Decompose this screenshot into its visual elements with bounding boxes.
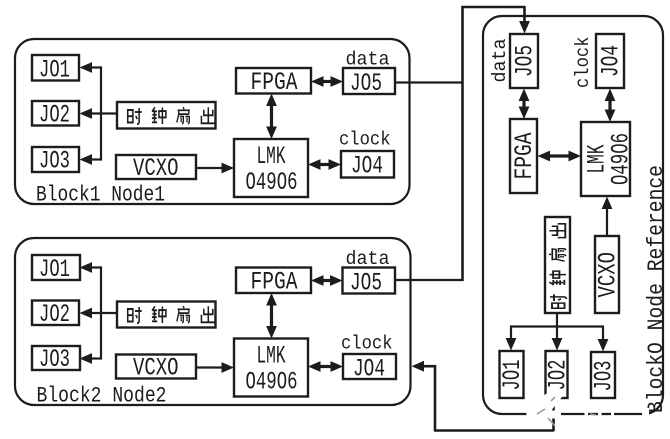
svg-text:FPGA: FPGA <box>251 268 298 297</box>
wire FPGA-LMK04906 double arrow (Block2) <box>266 293 277 339</box>
svg-text:JO3: JO3 <box>39 147 70 176</box>
wire FPGA-J05 double arrow (Block2) <box>311 275 343 286</box>
svg-text:JO4: JO4 <box>351 152 383 181</box>
svg-text:JO3: JO3 <box>590 361 619 392</box>
port J04 (Block0) <box>596 34 626 88</box>
label clock (Block0) <box>572 37 594 89</box>
oscillator VCXO (Block0) <box>594 236 623 313</box>
block Block1 Node1 boundary <box>15 39 410 204</box>
svg-text:JO5: JO5 <box>350 269 382 298</box>
svg-text:LMK: LMK <box>257 342 286 371</box>
wire J05 out to trunk (Block2) <box>395 279 464 281</box>
wire data drop into Block0 J05 <box>519 6 530 34</box>
wire fanout to J02 (Block2) <box>80 308 118 319</box>
clock fanout box 时钟扇出 (Block2) <box>117 302 216 328</box>
svg-text:JO4: JO4 <box>597 45 626 77</box>
wire J05-FPGA double arrow (Block0) <box>519 89 530 120</box>
svg-text:Block2 Node2: Block2 Node2 <box>37 384 167 409</box>
connector J01 (Block0) <box>498 351 527 398</box>
clock chip LMK04906 (Block2) <box>234 339 308 397</box>
wire VCXO to LMK04906 (Block2) <box>196 362 234 373</box>
svg-text:JO1: JO1 <box>39 56 70 85</box>
connector J01 (Block2) <box>32 255 80 284</box>
svg-text:JO1: JO1 <box>498 360 527 391</box>
label data (Block1) <box>346 49 390 71</box>
svg-text:JO5: JO5 <box>350 69 382 98</box>
svg-text:JO2: JO2 <box>39 101 70 130</box>
svg-text:clock: clock <box>341 333 393 355</box>
wire VCXO to LMK04906 (Block0) <box>602 197 613 237</box>
port J05 (Block2) <box>343 268 396 298</box>
svg-text:Block1 Node1: Block1 Node1 <box>36 183 165 208</box>
port J04 (Block2) <box>343 354 396 384</box>
svg-text:LMK: LMK <box>257 142 286 171</box>
FPGA (Block0) <box>510 119 539 193</box>
wire FPGA-LMK04906 double arrow (Block0) <box>538 151 582 162</box>
svg-text:VCXO: VCXO <box>133 354 179 383</box>
svg-text:JO5: JO5 <box>511 45 540 77</box>
label data (Block0) <box>489 39 511 83</box>
label Block0 Node Reference <box>644 165 669 413</box>
svg-text:clock: clock <box>572 37 594 89</box>
connector J02 (Block2) <box>32 300 79 329</box>
wire branch to J03 (Block1) <box>80 154 103 165</box>
wire J04-LMK04906 double arrow (Block0) <box>605 89 616 123</box>
connector J02 (Block0) <box>544 351 573 398</box>
port J04 (Block1) <box>341 151 394 181</box>
wire LMK04906-J04 double arrow (Block1) <box>308 159 341 170</box>
svg-text:JO1: JO1 <box>39 255 70 284</box>
wire FPGA-LMK04906 double arrow (Block1) <box>266 94 277 140</box>
svg-text:FPGA: FPGA <box>510 133 539 180</box>
connector J03 (Block1) <box>32 147 79 176</box>
connector J01 (Block1) <box>32 55 79 85</box>
connector J02 (Block1) <box>32 101 79 130</box>
label Block1 Node1 <box>36 183 165 208</box>
label clock (Block2) <box>341 333 393 355</box>
label clock (Block1) <box>339 129 391 151</box>
wire fanout branch vertical (Block2) <box>100 267 102 360</box>
svg-text:FPGA: FPGA <box>251 68 298 97</box>
svg-text:O49O6: O49O6 <box>246 168 298 197</box>
oscillator VCXO (Block1) <box>116 154 196 183</box>
svg-text:JO2: JO2 <box>39 300 70 329</box>
connector J03 (Block0) <box>590 352 619 398</box>
wire branch to J01 (Block2) <box>80 262 103 273</box>
svg-text:JO2: JO2 <box>544 360 573 391</box>
block Block2 Node2 boundary <box>15 238 411 405</box>
watermark (white blob + gray marks) <box>526 387 649 427</box>
clock chip LMK04906 (Block1) <box>234 139 308 197</box>
svg-text:O49O6: O49O6 <box>246 368 298 397</box>
svg-text:data: data <box>489 39 511 83</box>
wire FPGA-J05 double arrow (Block1) <box>311 76 343 87</box>
label data (Block2) <box>346 248 390 270</box>
wire fanout branch vertical (Block1) <box>100 67 102 161</box>
wire fanout branch horizontal (Block0) <box>510 325 604 327</box>
connector J03 (Block2) <box>32 345 80 374</box>
FPGA (Block2) <box>236 268 311 297</box>
svg-text:data: data <box>346 248 390 270</box>
wire LMK04906-J04 double arrow (Block2) <box>308 361 343 372</box>
wire data trunk vertical <box>461 6 464 281</box>
wire J05 out to trunk (Block1) <box>395 81 464 83</box>
port J05 (Block1) <box>343 68 395 98</box>
svg-text:O49O6: O49O6 <box>607 133 636 185</box>
oscillator VCXO (Block2) <box>116 354 196 383</box>
wire data trunk top horizontal <box>462 6 525 9</box>
wire fanout to J02 (Block1) <box>80 108 118 119</box>
wire fanout to J02 (Block0) <box>552 313 563 351</box>
svg-text:data: data <box>346 49 390 71</box>
FPGA (Block1) <box>236 68 311 97</box>
wire branch to J03 (Block2) <box>80 353 103 364</box>
svg-text:BlockO Node Reference: BlockO Node Reference <box>644 165 669 413</box>
wire clock feedback to Block2 J04 <box>412 361 555 431</box>
clock fanout box 时钟扇出 (Block1) <box>117 102 216 129</box>
wire branch to J01 (Block1) <box>80 62 103 73</box>
svg-text:JO3: JO3 <box>39 345 70 374</box>
svg-text:JO4: JO4 <box>353 355 385 384</box>
block Block0 Node Reference boundary <box>483 16 663 414</box>
svg-text:clock: clock <box>339 129 391 151</box>
wire branch to J03 (Block0) <box>598 326 609 352</box>
port J05 (Block0) <box>510 34 540 88</box>
svg-text:VCXO: VCXO <box>594 252 623 298</box>
wire branch to J01 (Block0) <box>506 326 517 351</box>
clock fanout box 时钟扇出 (Block0) <box>545 217 570 313</box>
wire VCXO to LMK04906 (Block1) <box>196 163 234 174</box>
svg-text:VCXO: VCXO <box>133 154 179 183</box>
clock chip LMK04906 (Block0) <box>581 122 636 196</box>
label Block2 Node2 <box>37 384 167 409</box>
